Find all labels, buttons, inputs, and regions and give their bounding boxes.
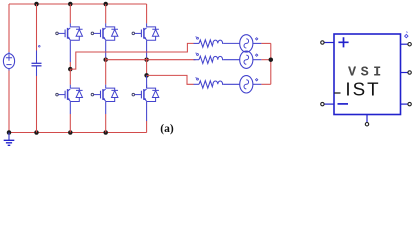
- wire phase B to star: [261, 59, 270, 61]
- wire phase B to source: [223, 59, 240, 61]
- wire capacitor top: [36, 4, 38, 51]
- wire leg3 emitter stub: [146, 40, 148, 58]
- text IST label: [345, 78, 380, 99]
- wire capacitor top pin: [36, 51, 38, 64]
- node leg3 phase C tap: [144, 73, 149, 78]
- block pin phase B (right 2): [401, 71, 412, 74]
- node leg1 midpoint: [68, 67, 73, 72]
- node star point: [269, 57, 274, 62]
- transistor Q2: [132, 85, 159, 102]
- node bottom bus / leg2: [103, 130, 108, 135]
- wire leg3 to bottom bus: [146, 121, 148, 133]
- wire top bus to leg2 collector: [105, 4, 107, 23]
- wire top bus to leg3 collector: [146, 4, 148, 23]
- wire phase C element lead: [194, 83, 200, 85]
- wire phase A element lead: [194, 42, 200, 44]
- wire leg3 bottom emitter stub: [146, 102, 148, 122]
- RL branch phase C: [199, 81, 223, 88]
- RL branch phase B: [199, 56, 223, 63]
- wire phase C to source: [223, 83, 240, 85]
- transistor Q5: [132, 23, 159, 40]
- wire phase B: [106, 59, 196, 61]
- wire source bottom drop: [8, 71, 10, 133]
- node bottom bus / C-: [34, 130, 39, 135]
- svg-text:IST: IST: [345, 78, 380, 99]
- block pin DC+ (left top): [321, 41, 334, 44]
- wire source bottom pin: [8, 68, 10, 70]
- subcircuit block U1 outline: [334, 34, 401, 115]
- transistor Q1: [56, 23, 83, 40]
- transistor Q3: [91, 23, 118, 40]
- wire star point trunk: [270, 43, 272, 84]
- text underscore of label: [334, 92, 340, 94]
- polarity marker Ec: [255, 79, 257, 81]
- wire phase A source out: [253, 42, 262, 44]
- wire capacitor bottom: [36, 76, 38, 133]
- wire phase C jog: [147, 75, 194, 84]
- wire bottom DC- bus: [9, 132, 147, 134]
- transistor Q4: [56, 85, 83, 102]
- wire top bus to leg1 collector: [69, 4, 71, 23]
- wire phase A to star: [261, 42, 270, 44]
- block pin phase C (right 3): [401, 102, 412, 105]
- block pin bottom: [365, 115, 368, 126]
- wire phase C to star: [261, 83, 270, 85]
- wire leg1 bottom emitter stub: [69, 102, 71, 115]
- block pin phase A (right 1): [401, 43, 412, 46]
- AC source Ea: [240, 35, 253, 52]
- wire top DC+ bus: [9, 3, 147, 5]
- capacitor C1: [32, 46, 42, 66]
- wire leg2 bottom emitter stub: [105, 102, 107, 115]
- wire leg2 lower: [105, 58, 107, 85]
- wire leg2 to bottom bus: [105, 114, 107, 133]
- wire leg1 midpoint: [69, 62, 71, 69]
- node top bus / C+: [34, 2, 39, 7]
- wire source top drop: [8, 4, 10, 52]
- polarity marker Ea: [255, 38, 257, 40]
- node leg3 phase B junction: [144, 57, 149, 62]
- wire phase A jog: [70, 43, 193, 69]
- wire capacitor bottom pin: [36, 66, 38, 76]
- wire phase A to source: [223, 42, 240, 44]
- text caption (a): [160, 123, 174, 135]
- svg-text:(a): (a): [160, 123, 174, 135]
- wire leg1 emitter stub: [69, 40, 71, 62]
- text VSI: [348, 65, 386, 80]
- node leg2 midpoint: [103, 57, 108, 62]
- wire leg3 mid: [146, 58, 148, 76]
- AC source Ec: [240, 76, 253, 93]
- ground: [4, 133, 15, 146]
- node bottom bus / leg1: [68, 130, 73, 135]
- terminal marker phase B: [195, 53, 198, 56]
- wire leg3 lower: [146, 75, 148, 88]
- block pin DC- (left bottom): [321, 102, 334, 105]
- node top bus / leg1: [68, 2, 73, 7]
- RL branch phase A: [199, 40, 223, 47]
- terminal marker phase A: [195, 36, 198, 39]
- wire source top pin: [8, 52, 10, 54]
- wire phase C source out: [253, 83, 262, 85]
- wire phase B element lead: [194, 59, 200, 61]
- wire leg2 emitter stub: [105, 40, 107, 58]
- block plus terminal label: [338, 37, 348, 47]
- block corner marker: [405, 31, 408, 37]
- wire leg1 lower: [69, 69, 71, 85]
- wire leg1 to bottom bus: [69, 114, 71, 133]
- wire phase B source out: [253, 59, 262, 61]
- terminal marker phase C: [195, 77, 198, 80]
- block minus terminal label: [338, 103, 349, 105]
- transistor Q6: [91, 85, 118, 102]
- node top bus / leg2: [103, 2, 108, 7]
- node ground junction: [7, 130, 12, 135]
- AC source Eb: [240, 51, 253, 68]
- voltage source Vdc: [3, 54, 14, 69]
- polarity marker Eb: [255, 54, 257, 56]
